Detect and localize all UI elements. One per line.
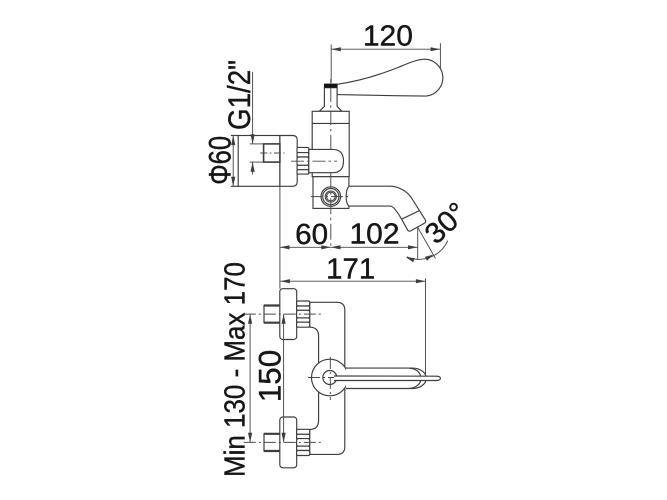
min-max arrow bottom [248, 433, 252, 443]
svg-text:Min 130 - Max 170: Min 130 - Max 170 [220, 262, 252, 477]
dimension 120 arrow right [431, 47, 441, 51]
30 degree reference line [418, 227, 436, 258]
30 degree arc arrow right [425, 255, 434, 261]
bottom wall mount square nut [264, 434, 280, 451]
aerator rings [321, 187, 341, 207]
hub vertical centerline [329, 357, 331, 400]
svg-text:102: 102 [350, 218, 400, 250]
escutcheon cup (side view) [280, 136, 297, 187]
top mount centerline [244, 313, 322, 315]
svg-text:30°: 30° [419, 197, 474, 251]
dimension 150 arrow top [282, 314, 286, 324]
svg-text:150: 150 [251, 350, 287, 403]
dimension 171 line [280, 280, 425, 282]
dimension 120 extension line left [330, 45, 332, 83]
svg-text:120: 120 [363, 20, 413, 52]
top wall mount escutcheon [280, 289, 297, 340]
dimension min-max line [249, 314, 251, 442]
dimension label 30deg [419, 197, 474, 251]
G1/2 dimension line upper [252, 72, 254, 144]
dimension 102 line [331, 246, 418, 248]
aerator horizontal centerline [311, 196, 351, 198]
lever cylinder inner end arc [410, 368, 422, 388]
30 degree arc [407, 241, 448, 260]
G1/2 dimension line lower [252, 162, 254, 174]
handle stem black cap [324, 84, 337, 88]
top wall mount square nut [264, 306, 280, 323]
body vertical centerline middle [330, 88, 332, 149]
handle stem [319, 88, 342, 112]
dimension 150 line [283, 314, 285, 442]
escutcheon top edge extension [231, 135, 238, 137]
dimension 60/102 left extension [279, 187, 281, 289]
spout tube [346, 186, 426, 231]
body horizontal centerline [291, 160, 337, 162]
G1/2 upper arrow [251, 134, 255, 144]
lever handle paddle (side view) [337, 59, 443, 96]
svg-text:171: 171 [326, 253, 375, 285]
dimension 171 arrow right [416, 279, 426, 283]
top wall mount knurled nut [297, 301, 310, 327]
svg-text:Φ60: Φ60 [201, 136, 237, 185]
dimension 171 arrow left [280, 279, 290, 283]
lever blade outline [334, 376, 440, 381]
spout housing block [313, 177, 349, 209]
faucet body (side view) [312, 111, 349, 176]
dimension 60 arrow right [321, 245, 331, 249]
diameter 60 arrow top [231, 136, 235, 146]
body side port dome [309, 149, 344, 172]
knurled nut (side view) [297, 147, 309, 174]
cartridge hub outer circle [312, 359, 349, 396]
dimension 60 arrow left [280, 245, 290, 249]
diameter 60 dimension line [232, 136, 234, 186]
min-max arrow top [248, 314, 252, 324]
G1/2 nipple [264, 144, 280, 162]
svg-text:60: 60 [295, 219, 328, 251]
bottom wall mount knurled nut [297, 429, 310, 455]
escutcheon bottom edge extension [231, 185, 238, 187]
dimension 60 line [280, 246, 331, 248]
dimension 120 line [331, 48, 440, 50]
lever blade fill (plan view) [334, 376, 440, 381]
spout aerator collar line [402, 211, 420, 220]
plan view body column [310, 302, 345, 454]
diameter 60 arrow bottom [231, 177, 235, 187]
nipple bottom edge extension [250, 161, 264, 163]
dimension 120 extension line right [439, 43, 441, 74]
body cap line [312, 122, 349, 124]
G1/2 lower arrow [251, 162, 255, 172]
30 degree arc arrow left [406, 257, 415, 262]
dimension 171 right extension [425, 278, 427, 374]
body vertical centerline lower [330, 173, 332, 250]
dimension 102 arrow right [408, 245, 418, 249]
bottom mount centerline [244, 441, 322, 443]
dimension 102 arrow left [331, 245, 341, 249]
dimension 60/102 right extension [417, 227, 419, 259]
cartridge hub inner circle [323, 371, 337, 385]
svg-text:G1/2": G1/2" [221, 60, 257, 130]
nipple top edge extension [250, 143, 264, 145]
lever cylinder (plan view) [346, 368, 426, 388]
nipple centerline [260, 152, 284, 154]
escutcheon wall plate (side view) [238, 136, 280, 187]
body vertical centerline upper [330, 79, 332, 83]
bottom wall mount escutcheon [280, 417, 297, 468]
hub horizontal centerline [308, 377, 352, 379]
dimension 150 arrow bottom [282, 433, 286, 443]
dimension 120 arrow left [331, 47, 341, 51]
